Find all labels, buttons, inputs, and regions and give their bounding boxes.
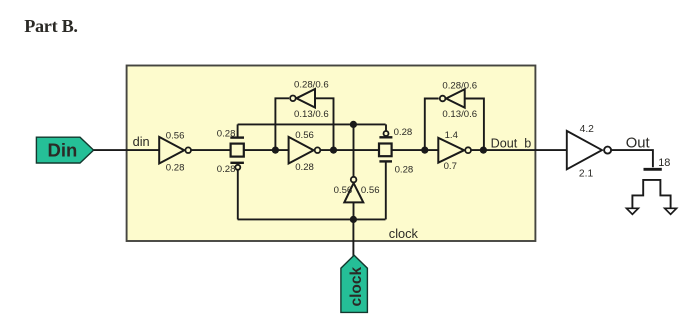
node C junction dot (421, 147, 428, 154)
value label 0.28 (U1 nmos) (166, 162, 185, 173)
node A junction dot (272, 147, 279, 154)
svg-text:18: 18 (658, 157, 670, 169)
node Dout_b junction dot (480, 147, 487, 154)
svg-text:Part B.: Part B. (24, 16, 77, 36)
port clock (green tag) (341, 255, 368, 312)
wire FB2 input from node Dout_b (465, 99, 484, 151)
clock inverter CK1 (0.56/0.56) pointing up (344, 177, 363, 203)
svg-text:0.56: 0.56 (334, 185, 353, 196)
node B junction dot (330, 147, 337, 154)
wire U2 to tgate TG2 (node B) (321, 149, 380, 151)
net label Dout_b (491, 136, 532, 150)
value label 0.13/0.6 (FB2) (442, 109, 477, 120)
net label din (133, 134, 150, 149)
value label 0.28 (U2 nmos) (295, 162, 314, 173)
port Din (green tag) (36, 137, 93, 163)
wire U1 to tgate TG1 (191, 149, 231, 151)
latch bounding box (yellow) (127, 66, 536, 242)
value label 18 (C1) (658, 157, 670, 169)
wire node C up to feedback inv FB2 output (425, 99, 439, 151)
clock gate rail (inverted clock) (238, 123, 386, 125)
wire U3 to inverter U4 (through box edge) (471, 149, 567, 151)
value label 1.4 (U3 pmos) (445, 130, 459, 141)
svg-text:0.28: 0.28 (395, 164, 414, 175)
TG2 bottom gate bar (379, 161, 392, 219)
svg-text:din: din (133, 134, 150, 149)
value label 0.28/0.6 (FB2) (442, 81, 477, 92)
value label 0.28/0.6 (FB1) (294, 80, 329, 91)
transmission gate TG1 body (231, 144, 244, 157)
wire Din to inv U1 (94, 149, 160, 151)
feedback inverter FB2 (0.28/0.6, 0.13/0.6) pointing left (440, 89, 465, 108)
inverter U2 (0.56/0.28) (289, 137, 321, 164)
value label 4.2 (U4 pmos) (580, 124, 595, 135)
svg-text:2.1: 2.1 (579, 169, 594, 180)
wire TG1 to node A (244, 149, 288, 151)
svg-text:0.28: 0.28 (394, 127, 413, 138)
clock rail (bottom) (238, 218, 386, 220)
wire node A up to feedback inv FB1 output (275, 98, 289, 150)
svg-text:Out: Out (626, 136, 650, 152)
svg-text:0.7: 0.7 (444, 161, 457, 172)
svg-text:0.28/0.6: 0.28/0.6 (442, 81, 477, 92)
junction clkbar rail dot (350, 121, 357, 128)
load MOS cap C1 gate bar (644, 168, 662, 171)
value label 0.28 (TG2 top) (394, 127, 413, 138)
net label clock (389, 226, 419, 241)
svg-text:0.13/0.6: 0.13/0.6 (442, 109, 477, 120)
inverter U1 (0.56/0.28) (159, 137, 191, 164)
ground left (627, 208, 639, 214)
value label 0.56 (U2 pmos) (295, 130, 314, 141)
load MOS cap C1 body (source/drain hat) (632, 180, 670, 210)
svg-text:0.28: 0.28 (295, 162, 314, 173)
TG1 bottom gate bar with bubble (230, 163, 244, 220)
svg-text:0.56: 0.56 (166, 130, 185, 141)
wire clock rail down to clock port (352, 219, 354, 256)
svg-text:0.28: 0.28 (217, 129, 236, 140)
inverter U3 (1.4/0.7) (438, 138, 471, 163)
svg-text:0.13/0.6: 0.13/0.6 (294, 109, 329, 120)
value label 0.28 (TG2 bottom) (395, 164, 414, 175)
wire CK1 output up to clkbar rail (353, 124, 355, 176)
value label 0.28 (TG1 bottom) (217, 164, 236, 175)
TG2 top gate bubble and bar (379, 124, 392, 137)
wire CK1 input down to clock rail (353, 202, 355, 219)
svg-text:Din: Din (48, 140, 78, 161)
svg-text:1.4: 1.4 (445, 130, 459, 141)
svg-text:0.28/0.6: 0.28/0.6 (294, 80, 329, 91)
svg-text:0.28: 0.28 (217, 164, 236, 175)
junction clock rail dot (350, 216, 357, 223)
svg-text:0.56: 0.56 (361, 185, 380, 196)
value label 0.7 (U3 nmos) (444, 161, 457, 172)
value label 0.28 (TG1 top) (217, 129, 236, 140)
value label 0.56 (CK1 left) (334, 185, 353, 196)
svg-text:Dout_b: Dout_b (491, 136, 532, 150)
svg-text:clock: clock (389, 226, 419, 241)
feedback inverter FB1 (0.28/0.6, 0.13/0.6) pointing left (290, 89, 315, 108)
TG1 top gate bar (230, 124, 244, 137)
wire FB1 input from node B (315, 98, 334, 150)
title Part B. (24, 16, 77, 36)
svg-text:0.56: 0.56 (295, 130, 314, 141)
svg-text:clock: clock (348, 266, 365, 306)
wire U4 to load (611, 150, 653, 167)
inverter U4 (4.2/2.1) output driver (567, 131, 611, 169)
transmission gate TG2 body (379, 144, 392, 157)
value label 0.56 (U1 pmos) (166, 130, 185, 141)
svg-text:4.2: 4.2 (580, 124, 595, 135)
value label 0.56 (CK1 right) (361, 185, 380, 196)
wire TG2 to node C (391, 149, 438, 151)
value label 2.1 (U4 nmos) (579, 169, 594, 180)
svg-text:0.28: 0.28 (166, 162, 185, 173)
value label 0.13/0.6 (FB1) (294, 109, 329, 120)
ground right (665, 208, 677, 214)
net label Out (626, 136, 650, 152)
